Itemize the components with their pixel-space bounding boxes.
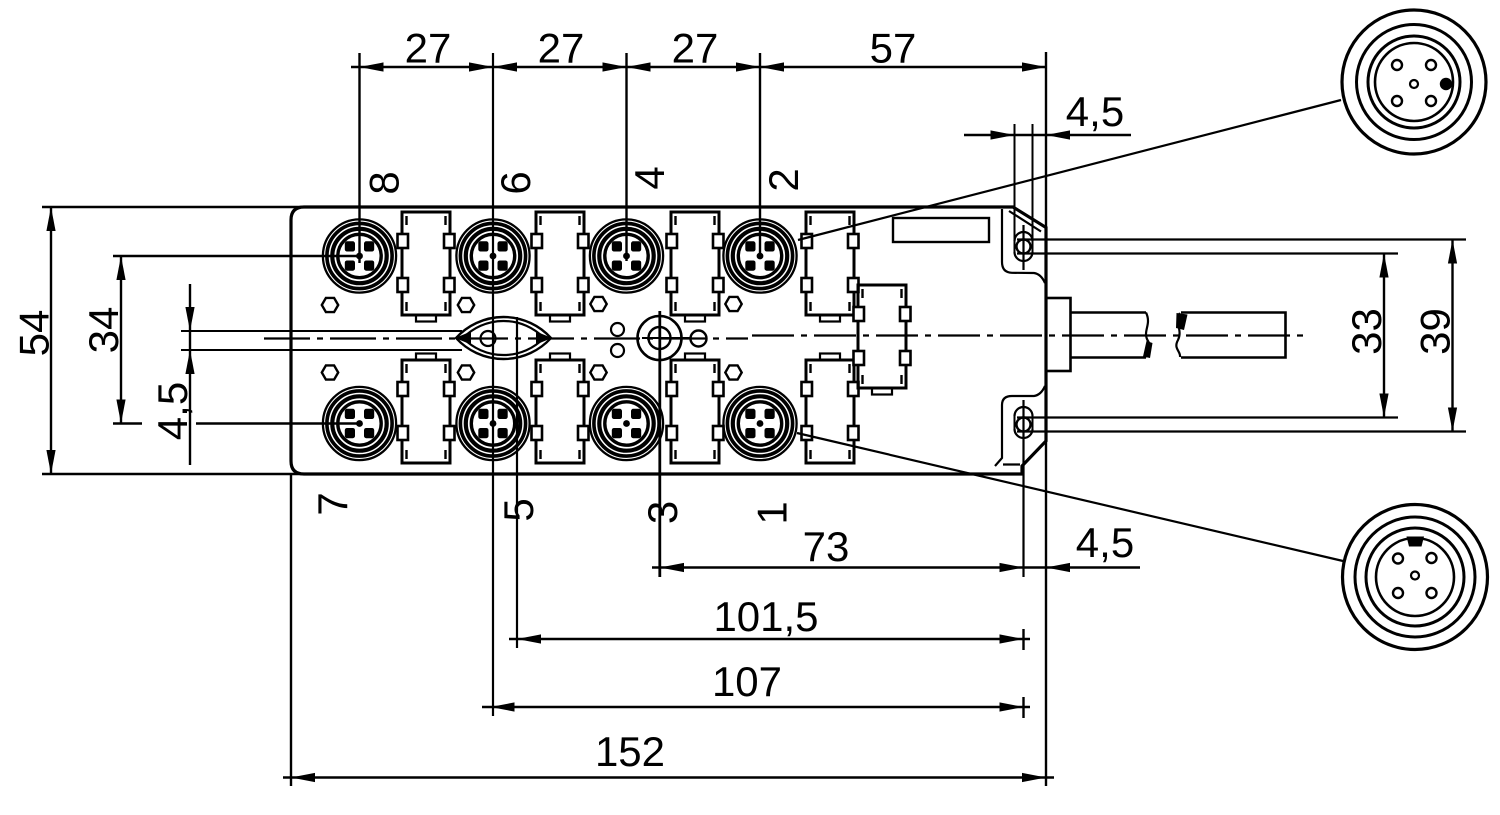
dimension arrowhead at 1046,567.5 [1046,563,1070,572]
cable entry plate top column x=806 [802,212,859,315]
cable gland [1046,298,1071,371]
pointed oval window outer [456,317,551,359]
connector M12 port 1 [723,387,796,460]
axis centreline [264,337,748,339]
left slot groove top edge [181,330,462,332]
top dimension chain extension lines [358,53,360,263]
mounting slot hole bottom [1014,416,1016,429]
keying dot top detail [1440,78,1452,90]
dim 73 / 4,5 bottom line [652,566,1140,568]
extension line through connectors 6/5 [492,53,494,716]
svg-text:33: 33 [1343,308,1390,355]
svg-text:27: 27 [672,25,719,72]
dimension arrowhead at 51,207 [46,207,55,231]
cable segment 1 [1071,311,1147,314]
svg-text:6: 6 [492,171,539,194]
dimension arrowhead at 291,777.5 [291,773,315,782]
svg-text:4,5: 4,5 [1066,88,1124,135]
dimension arrowhead at 1046,135 [1046,130,1070,139]
dim 101,5 line [509,638,1030,640]
hex screw at 330,372.5 [322,365,338,379]
small pilot circles near centre hole [611,323,624,336]
dim 33 line [1383,254,1385,418]
dimension arrowhead at 490.5,707 [491,702,515,711]
dimension arrowhead at 1023.5,567.5 [1000,563,1024,572]
svg-text:27: 27 [538,25,585,72]
dimension arrowhead at 1046,777.5 [1022,773,1046,782]
dimension arrowhead at 359.5,67 [360,62,384,71]
oval window pointed tips (dark wedges) [455,332,471,345]
dimension arrowhead at 190,350 [185,350,194,374]
leader line to detail view top [798,100,1341,240]
detail view male connector bottom right [1343,505,1488,650]
dimension arrowhead at 517,639 [517,634,541,643]
dim 39 line [1451,240,1453,432]
svg-text:39: 39 [1412,308,1459,355]
svg-text:2: 2 [760,168,807,191]
dimension arrowhead at 1452.5,239.5 [1448,240,1457,264]
svg-text:152: 152 [595,728,665,775]
cable entry plate top column x=671 [667,212,724,315]
extension ticks at mounting hole centre for 101,5 / 107 [1022,629,1024,650]
bottom slot centre extension line (4,5 ref) [1022,400,1024,577]
svg-text:3: 3 [639,501,686,524]
dimension arrowhead at 1014.5,135 [991,130,1015,139]
dimension arrowhead at 493,67 [493,62,517,71]
svg-text:101,5: 101,5 [713,593,818,640]
housing outline [291,207,1046,474]
mounting slot hole top [1014,124,1016,252]
dimension arrowhead at 1384,417.5 [1379,394,1388,418]
dimension arrowhead at 760,67 [760,62,784,71]
hex screw at 598.5,304 [590,297,606,311]
dimension arrowhead at 493,67 [469,62,493,71]
dimension arrowhead at 760,67 [736,62,760,71]
pointed oval window inner [463,321,544,355]
cable entry plate bottom column x=671 [667,360,724,463]
dim 4,5 top line [964,134,1131,136]
hex screw at 466,372.5 [458,365,474,379]
left slot groove bottom edge [181,349,462,351]
svg-text:54: 54 [11,310,58,357]
cable entry plate centre right [854,285,911,388]
connector M12 port 3 [590,387,663,460]
small circle in oval [481,331,496,346]
hex screw at 330,305 [322,298,338,312]
centre mounting hole [638,316,682,360]
dimension arrowhead at 1046,67 [1022,62,1046,71]
dim 4,5 left line [189,284,191,465]
cable entry plate bottom column x=806 [802,360,859,463]
dimension arrowhead at 121,256 [116,256,125,280]
dim 34 line [120,256,122,424]
dimension arrowhead at 626.5,67 [627,62,651,71]
hex screw at 733.5,304 [725,297,741,311]
svg-text:4,5: 4,5 [1076,519,1134,566]
hex screw at 733.5,372.5 [725,365,741,379]
dimension arrowhead at 121,423.5 [116,400,125,424]
housing chamfer top-right inner line [1009,211,1041,232]
leader line to detail view bottom [797,433,1343,561]
svg-text:5: 5 [495,498,542,521]
dim 152 line [283,776,1054,778]
dim 107 line [482,706,1030,708]
hex screw at 466,305 [458,298,474,312]
detail view female connector top right [1342,10,1486,154]
connector M12 port 2 [723,219,796,292]
connector M12 port 4 [590,219,663,292]
dimension arrowhead at 1023.5,639 [1000,634,1024,643]
slot top edge extension lines (33/39 refs) [1017,238,1466,240]
connector M12 port 7 [323,387,396,460]
dimension arrowhead at 1023.5,707 [1000,702,1024,711]
keyway notch bottom detail [1407,537,1425,547]
connector M12 port 6 [456,219,529,292]
dimension arrowhead at 51,474 [46,450,55,474]
dimension arrowhead at 1452.5,431.5 [1448,408,1457,432]
svg-text:4: 4 [626,166,673,189]
cable entry plate top column x=402 [398,212,455,315]
dimension arrowhead at 660,567.5 [660,563,684,572]
dimension arrowhead at 1384,253.5 [1379,254,1388,278]
dim 54 line [50,207,52,474]
svg-text:1: 1 [749,501,796,524]
top dimension chain line 27/27/27/57 [351,66,1046,68]
connector M12 port 5 [456,387,529,460]
dimension arrowhead at 626.5,67 [603,62,627,71]
svg-text:73: 73 [803,523,850,570]
mounting ear recess top [1002,209,1045,283]
svg-text:57: 57 [870,25,917,72]
svg-text:27: 27 [405,25,452,72]
hex screw at 598.5,372.5 [590,365,606,379]
svg-text:4,5: 4,5 [149,382,196,440]
cable entry plate top column x=536 [532,212,589,315]
svg-text:34: 34 [80,307,127,354]
cable segment 2 with break [1176,313,1180,357]
svg-text:7: 7 [309,492,356,515]
svg-text:8: 8 [361,171,408,194]
cable entry plate bottom column x=402 [398,360,455,463]
cable entry plate bottom column x=536 [532,360,589,463]
mounting ear recess bottom [995,386,1045,466]
dimension arrowhead at 190,331 [185,307,194,331]
extension line oval right (101,5 ref) [516,317,518,648]
svg-text:107: 107 [712,658,782,705]
connector M12 port 8 [323,219,396,292]
type label rectangle [893,218,989,242]
